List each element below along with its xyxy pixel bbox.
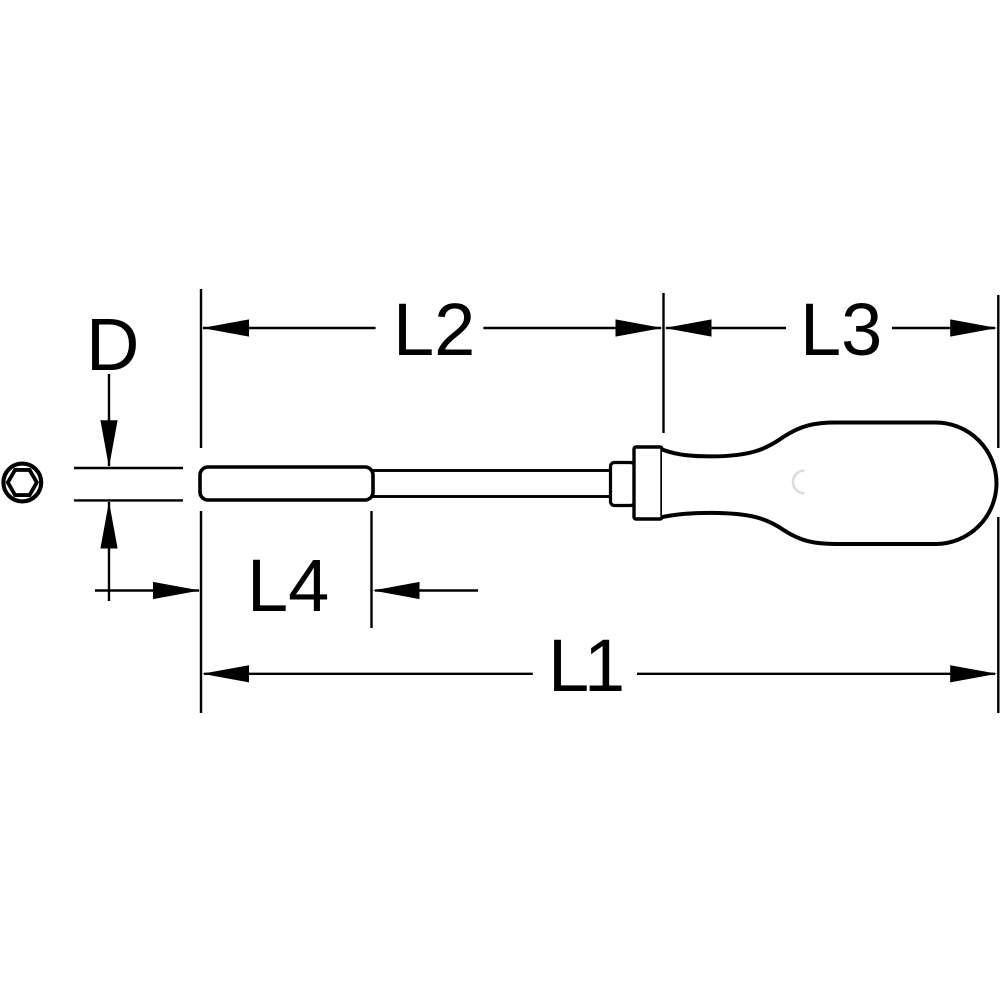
svg-text:L4: L4 (247, 544, 329, 627)
svg-text:L3: L3 (800, 288, 882, 371)
svg-text:L: L (548, 624, 589, 707)
svg-text:L2: L2 (393, 288, 475, 371)
svg-text:1: 1 (584, 624, 625, 707)
svg-text:D: D (86, 303, 139, 386)
